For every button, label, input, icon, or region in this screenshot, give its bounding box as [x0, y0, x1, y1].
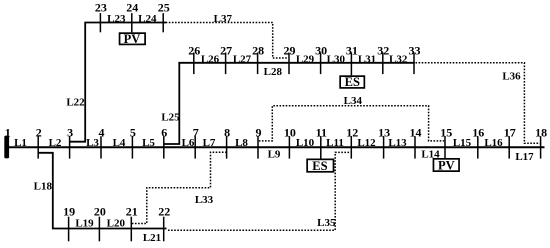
- svg-text:L36: L36: [502, 71, 521, 83]
- node bus 21: [126, 204, 138, 241]
- svg-text:27: 27: [220, 43, 232, 57]
- node bus 4: [99, 125, 105, 158]
- svg-text:L11: L11: [326, 137, 344, 149]
- svg-text:L7: L7: [203, 137, 216, 149]
- svg-text:20: 20: [94, 204, 106, 218]
- ES unit box at bus 31: [340, 75, 364, 89]
- svg-text:L33: L33: [195, 194, 214, 206]
- node bus 10: [284, 125, 296, 158]
- node bus 33: [409, 43, 421, 74]
- node bus 1 (substation bar): [4, 125, 10, 158]
- svg-text:L17: L17: [515, 151, 534, 163]
- svg-text:L9: L9: [268, 149, 281, 161]
- node bus 8: [224, 125, 230, 158]
- node bus 27: [220, 43, 232, 74]
- node bus 2: [36, 125, 42, 158]
- svg-text:L16: L16: [484, 137, 503, 149]
- svg-text:L4: L4: [113, 137, 126, 149]
- node bus 11: [316, 125, 327, 158]
- svg-text:26: 26: [188, 43, 200, 57]
- svg-text:10: 10: [284, 125, 296, 139]
- wire: main feeder bus line (buses 1-18): [7, 146, 545, 148]
- svg-text:L29: L29: [296, 53, 315, 65]
- svg-text:L10: L10: [296, 137, 315, 149]
- tie line L36 (dotted, bus 33 to bus 18): [416, 63, 540, 144]
- svg-text:L37: L37: [214, 13, 233, 25]
- svg-text:L34: L34: [344, 95, 363, 107]
- svg-text:L5: L5: [142, 137, 155, 149]
- node bus 3: [67, 125, 73, 158]
- wire: branch line buses 19-22: [52, 228, 167, 230]
- node bus 19: [63, 204, 75, 241]
- node bus 5: [130, 125, 136, 158]
- wire: feeder L22 vertical from bus 3 to branch 23-25: [70, 23, 86, 142]
- svg-text:L35: L35: [317, 217, 336, 229]
- PV unit box at bus 15: [433, 158, 459, 172]
- node bus 26: [188, 43, 200, 74]
- node bus 15: [440, 125, 452, 158]
- svg-text:ES: ES: [345, 75, 360, 89]
- wire: branch line buses 23-25: [84, 22, 166, 24]
- svg-text:25: 25: [158, 1, 170, 15]
- svg-text:24: 24: [126, 1, 138, 15]
- svg-text:L27: L27: [233, 53, 252, 65]
- svg-text:18: 18: [535, 125, 547, 139]
- svg-text:15: 15: [440, 125, 452, 139]
- svg-text:L32: L32: [389, 53, 408, 65]
- ES unit box at bus 11: [307, 159, 333, 173]
- svg-text:9: 9: [256, 125, 262, 139]
- node bus 18: [535, 125, 547, 158]
- svg-text:L6: L6: [182, 137, 195, 149]
- svg-text:L26: L26: [201, 53, 220, 65]
- svg-text:6: 6: [161, 125, 167, 139]
- svg-text:L22: L22: [66, 97, 85, 109]
- node bus 6: [161, 125, 167, 158]
- svg-text:28: 28: [252, 43, 264, 57]
- svg-text:L18: L18: [34, 181, 53, 193]
- node bus 29: [284, 43, 296, 74]
- svg-text:L3: L3: [86, 137, 99, 149]
- svg-text:L28: L28: [264, 66, 283, 78]
- svg-text:ES: ES: [312, 159, 327, 173]
- svg-text:L2: L2: [49, 137, 62, 149]
- svg-text:19: 19: [63, 204, 75, 218]
- svg-text:17: 17: [504, 125, 516, 139]
- svg-text:8: 8: [224, 125, 230, 139]
- node bus 22: [158, 204, 170, 241]
- svg-text:PV: PV: [124, 32, 141, 46]
- svg-text:L13: L13: [388, 137, 407, 149]
- node bus 7: [193, 125, 199, 158]
- svg-text:32: 32: [377, 43, 389, 57]
- tie line L33 (dotted, bus 21 to bus 8): [132, 152, 226, 223]
- svg-text:L23: L23: [107, 13, 126, 25]
- node bus 28: [252, 43, 264, 74]
- svg-text:L30: L30: [327, 53, 346, 65]
- wire: feeder L25 vertical from bus 6 to branch 26-33: [164, 63, 180, 144]
- svg-text:22: 22: [158, 204, 170, 218]
- svg-text:5: 5: [130, 125, 136, 139]
- svg-text:L12: L12: [357, 137, 376, 149]
- svg-text:L19: L19: [75, 218, 94, 230]
- svg-text:29: 29: [284, 43, 296, 57]
- svg-text:L24: L24: [138, 13, 157, 25]
- wire: feeder L18 vertical from bus 2 to branch 19-22: [38, 153, 53, 229]
- node bus 23: [95, 1, 107, 33]
- tie line L37 (dotted, bus 25 to bus 29): [166, 23, 289, 59]
- node bus 12: [346, 125, 358, 158]
- PV unit box at bus 24: [120, 32, 146, 46]
- svg-text:23: 23: [95, 1, 107, 15]
- node bus 9: [256, 125, 262, 158]
- svg-text:33: 33: [409, 43, 421, 57]
- svg-text:L15: L15: [453, 137, 472, 149]
- svg-text:L25: L25: [161, 111, 180, 123]
- svg-text:L31: L31: [358, 53, 376, 65]
- svg-text:1: 1: [5, 125, 11, 139]
- svg-text:L8: L8: [235, 137, 248, 149]
- svg-text:3: 3: [67, 125, 73, 139]
- node bus 31: [346, 43, 358, 75]
- svg-text:21: 21: [126, 204, 138, 218]
- svg-text:L1: L1: [14, 137, 27, 149]
- node bus 30: [315, 43, 327, 74]
- svg-text:L21: L21: [143, 232, 161, 244]
- svg-text:L20: L20: [107, 218, 126, 230]
- node bus 32: [377, 43, 389, 74]
- node bus 17: [504, 125, 516, 158]
- svg-text:4: 4: [99, 125, 105, 139]
- svg-text:14: 14: [410, 125, 422, 139]
- svg-text:16: 16: [472, 125, 484, 139]
- svg-text:31: 31: [346, 43, 358, 57]
- node bus 16: [472, 125, 484, 158]
- svg-text:PV: PV: [438, 158, 455, 172]
- node bus 14: [410, 125, 422, 158]
- tie line L34 (dotted, bus 9 to bus 15): [259, 106, 444, 141]
- node bus 13: [378, 125, 390, 158]
- node bus 20: [94, 204, 106, 241]
- node bus 25: [158, 1, 170, 33]
- node bus 24: [126, 1, 138, 33]
- svg-text:30: 30: [315, 43, 327, 57]
- svg-text:2: 2: [36, 125, 42, 139]
- tie line L35 (dotted, bus 22 to bus 12): [168, 152, 351, 230]
- wire: branch line buses 26-33: [178, 62, 414, 64]
